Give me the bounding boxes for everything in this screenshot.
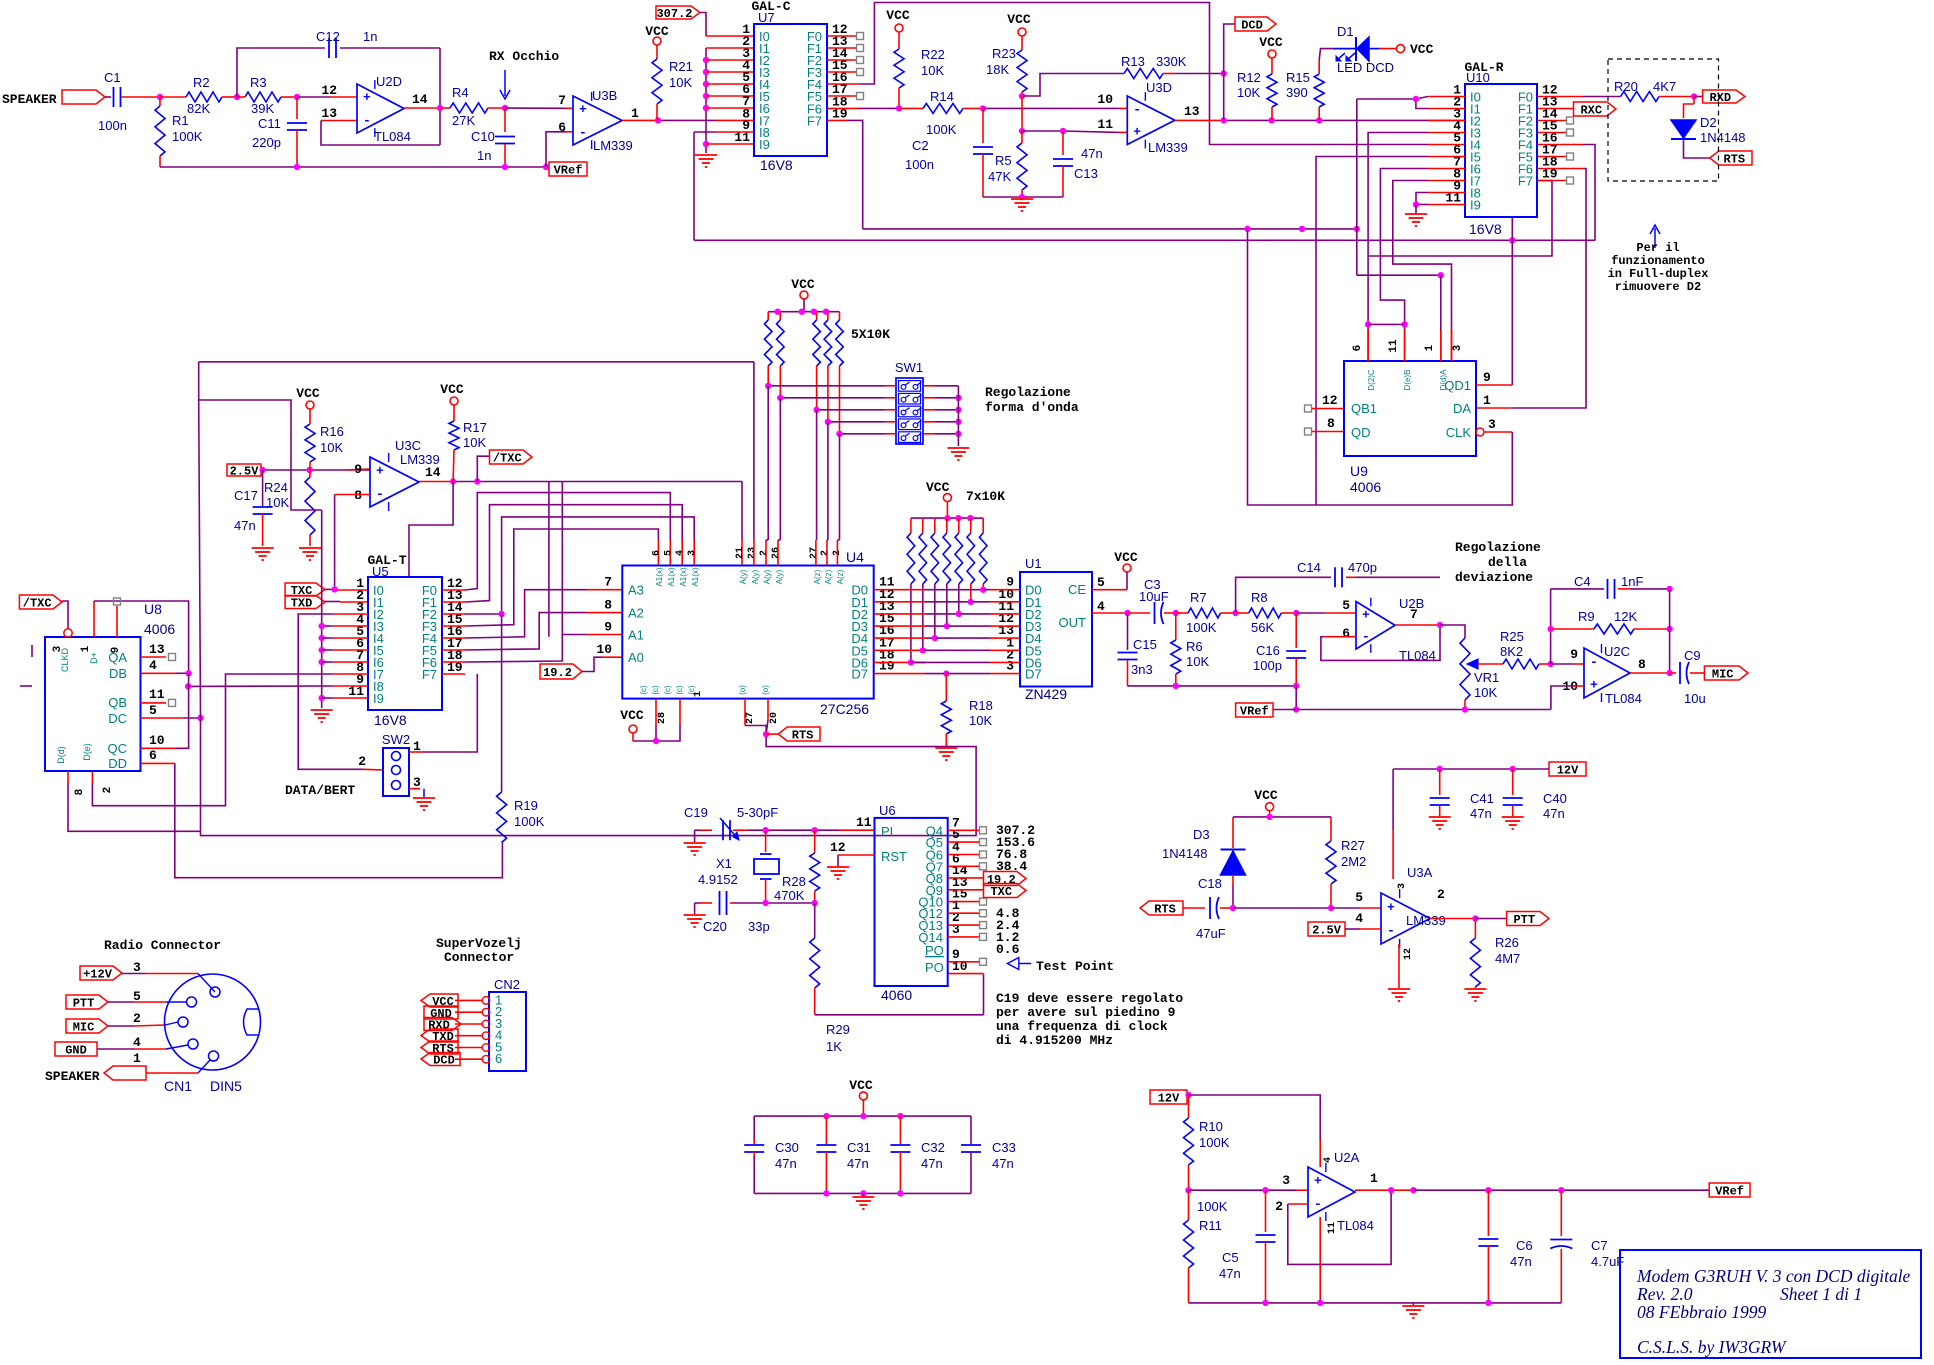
capacitor C11 220p <box>296 97 298 119</box>
svg-text:PO: PO <box>925 960 944 975</box>
wire bus1 (U7.F7 net) to U10.I0/I1 <box>863 228 1357 230</box>
12V rail <box>1393 768 1549 770</box>
svg-text:3: 3 <box>1397 883 1408 889</box>
wire R15 to D1 cathode <box>1318 60 1320 74</box>
wire U4.D7 to U1.D7 with R18 <box>874 673 925 675</box>
wire to U2A pin3 <box>1189 1189 1297 1191</box>
wire H1 bus (x200 to U4 pin) <box>199 361 754 363</box>
svg-text:R27: R27 <box>1341 838 1365 853</box>
wire bus2 (U7.I8 net) <box>694 239 1595 241</box>
wire U10.I5 from x1316 riser <box>1428 156 1465 158</box>
resistor R7 100K <box>1176 612 1188 614</box>
svg-text:4.9152: 4.9152 <box>698 872 738 887</box>
svg-text:VCC: VCC <box>1114 550 1138 565</box>
svg-text:1N4148: 1N4148 <box>1700 130 1746 145</box>
ground (C20) <box>695 902 700 904</box>
wire to U2B pin 5 <box>1296 612 1324 614</box>
junction TXC//TXC net <box>331 586 337 592</box>
resistor R9 12K <box>1551 628 1594 630</box>
svg-text:DA: DA <box>1453 401 1471 416</box>
svg-text:C19: C19 <box>684 805 708 820</box>
resistor R24 10K <box>309 470 311 477</box>
svg-text:QD1: QD1 <box>1444 378 1471 393</box>
svg-text:R13: R13 <box>1121 54 1145 69</box>
svg-text:CLKD: CLKD <box>60 648 70 673</box>
resistor R8 56K <box>1236 612 1249 614</box>
wire U5.F4 to U4.A3 <box>442 637 465 639</box>
svg-text:3: 3 <box>1488 417 1496 432</box>
junction DB <box>185 670 191 676</box>
svg-text:A1(x): A1(x) <box>679 567 688 586</box>
IC U6 4060 <box>875 818 948 986</box>
svg-text:QB: QB <box>108 695 127 710</box>
svg-text:TXD: TXD <box>291 597 313 611</box>
svg-text:7: 7 <box>558 93 566 108</box>
stray stub left (I8 row) <box>20 685 32 687</box>
svg-text:56K: 56K <box>1251 620 1274 635</box>
svg-text:14: 14 <box>412 92 428 107</box>
svg-text:8K2: 8K2 <box>1500 644 1523 659</box>
svg-text:A(z): A(z) <box>836 569 845 584</box>
junction DCD/out <box>1221 117 1227 123</box>
riser to R9/C4 <box>1550 589 1552 664</box>
svg-text:C13: C13 <box>1074 166 1098 181</box>
junction VR1/VRef rail <box>1462 706 1468 712</box>
label RTS (CN2) <box>421 1041 458 1054</box>
svg-text:2: 2 <box>102 787 114 794</box>
svg-text:-: - <box>376 487 384 502</box>
svg-text:1: 1 <box>1483 393 1491 408</box>
label 12V (VRef gen) <box>1150 1090 1187 1104</box>
junction C32 top <box>897 1113 903 1119</box>
wire SPEAKER to C1 <box>105 96 111 98</box>
svg-text:4: 4 <box>133 1035 141 1050</box>
svg-text:per avere sul piedino 9: per avere sul piedino 9 <box>996 1005 1176 1020</box>
junction X1 top <box>762 827 768 833</box>
junction SW1 row1 <box>765 383 771 389</box>
svg-text:Sheet 1 di 1: Sheet 1 di 1 <box>1780 1284 1862 1304</box>
wire U2B out to VR1 <box>1440 625 1465 638</box>
junction R1/rail <box>294 164 300 170</box>
wire U2A pin2 feedback <box>1288 1203 1308 1205</box>
resistor R14 100K <box>923 103 963 113</box>
connector RXD <box>1694 96 1703 98</box>
junction R9/fb vert <box>1666 626 1672 632</box>
svg-text:RTS: RTS <box>1724 153 1746 167</box>
resistor R3 39K <box>245 92 281 102</box>
svg-text:1n: 1n <box>477 148 491 163</box>
svg-text:6: 6 <box>149 748 157 763</box>
svg-text:2: 2 <box>1275 1199 1283 1214</box>
ground (slicer) <box>1011 198 1033 200</box>
wire RST to ground <box>838 854 875 856</box>
wire CLK net to bus1 <box>1248 229 1513 505</box>
svg-text:4060: 4060 <box>881 987 912 1003</box>
svg-text:QD: QD <box>1351 425 1371 440</box>
svg-text:2M2: 2M2 <box>1341 854 1366 869</box>
junction R10/R11/pin3 <box>1185 1187 1191 1193</box>
capacitor C2 100n <box>982 108 984 143</box>
capacitor C32 47n <box>899 1116 901 1144</box>
U8 top pin square <box>114 598 121 605</box>
resistor R17 10K <box>453 405 455 421</box>
svg-text:U8: U8 <box>144 601 162 617</box>
connector RTS (PTT input) <box>1140 901 1183 915</box>
capacitor C5 47n <box>1265 1190 1267 1232</box>
resistor R6 10K <box>1175 613 1177 640</box>
wire RTS to U4 pins <box>744 699 746 726</box>
svg-text:/TXC: /TXC <box>493 452 522 466</box>
svg-text:5: 5 <box>149 703 157 718</box>
svg-text:4M7: 4M7 <box>1495 951 1520 966</box>
svg-text:4006: 4006 <box>1350 479 1381 495</box>
connector RTS (full-duplex) <box>1710 151 1752 165</box>
svg-text:47uF: 47uF <box>1196 926 1226 941</box>
svg-text:SW1: SW1 <box>895 360 923 375</box>
svg-text:U2B: U2B <box>1399 596 1424 611</box>
svg-text:della: della <box>1488 555 1527 570</box>
svg-text:VCC: VCC <box>849 1078 873 1093</box>
svg-text:R20: R20 <box>1614 79 1638 94</box>
power VCC (R27) <box>1266 803 1274 811</box>
svg-text:D(e): D(e) <box>82 743 92 761</box>
resistor R12 10K <box>1271 58 1273 74</box>
wire U2C output <box>1630 672 1670 674</box>
svg-text:Regolazione: Regolazione <box>985 385 1071 400</box>
svg-text:220p: 220p <box>252 135 281 150</box>
svg-text:47n: 47n <box>992 1156 1014 1171</box>
wire to R27 junction <box>1233 907 1331 909</box>
resistor R20 4K7 <box>1621 92 1660 102</box>
wire U10.I3 to U9 pin6 <box>1428 132 1465 134</box>
wire R14 junction to U3D pin 10 <box>983 107 1119 109</box>
svg-text:U9: U9 <box>1350 463 1368 479</box>
op-amp U3A LM339 <box>1381 893 1430 944</box>
svg-text:forma d'onda: forma d'onda <box>985 400 1079 415</box>
junction bus1 mid <box>1299 226 1305 232</box>
wire U3D output line to U10.I2 <box>1175 119 1224 121</box>
VRef output line <box>1413 1189 1709 1191</box>
svg-text:RXC: RXC <box>1580 104 1602 118</box>
wire U2A power to rail <box>1319 1217 1321 1303</box>
capacitor C7 4.7uF <box>1560 1190 1562 1236</box>
oscillator rail2 <box>733 902 815 904</box>
wire /TXC to U8 CLK bubble <box>62 601 68 629</box>
wire U2D output to R4 <box>404 107 440 109</box>
U9 pin QD (8) unconnected <box>1305 428 1312 435</box>
svg-text:R8: R8 <box>1251 590 1268 605</box>
svg-text:0.6: 0.6 <box>996 942 1020 957</box>
svg-text:6: 6 <box>1342 626 1350 641</box>
svg-text:21: 21 <box>735 547 746 559</box>
svg-text:(c): (c) <box>663 685 672 695</box>
wire U10.F6 to U9.DA <box>1537 168 1583 170</box>
svg-text:F7: F7 <box>422 667 437 682</box>
svg-text:7x10K: 7x10K <box>966 489 1005 504</box>
svg-text:D1: D1 <box>1337 24 1354 39</box>
resistor R25 8K2 <box>1503 659 1539 669</box>
svg-text:100n: 100n <box>98 118 127 133</box>
svg-text:OUT: OUT <box>1059 615 1087 630</box>
label 12V (top right) <box>1549 762 1586 776</box>
svg-text:A(z): A(z) <box>813 569 822 584</box>
svg-text:10: 10 <box>1097 92 1113 107</box>
resistor R4 27K <box>440 107 450 109</box>
resistor R23 18K <box>1021 36 1023 50</box>
svg-text:11: 11 <box>856 815 872 830</box>
junction R20/RXD/D2 <box>1691 93 1697 99</box>
5X10K resistor bottoms <box>767 366 769 386</box>
svg-text:in Full-duplex: in Full-duplex <box>1608 267 1709 281</box>
svg-text:6: 6 <box>651 550 662 556</box>
node C junction (R3/C11/U2D+) <box>294 94 300 100</box>
wires 5X10K resistors down to U4 top pins <box>767 386 769 540</box>
junction R6/rail <box>1173 683 1179 689</box>
svg-text:PTT: PTT <box>73 997 95 1011</box>
connector RTS (to modem control) <box>766 733 778 735</box>
junction C31 top <box>823 1113 829 1119</box>
svg-text:R4: R4 <box>452 85 469 100</box>
junction x1404/y324 <box>1401 321 1407 327</box>
svg-text:I9: I9 <box>1470 198 1481 213</box>
wire DCD vertical <box>1224 24 1235 120</box>
svg-text:100K: 100K <box>926 122 957 137</box>
svg-text:C18: C18 <box>1198 876 1222 891</box>
svg-text:C32: C32 <box>921 1140 945 1155</box>
op-amp U2D TL084 <box>357 84 404 133</box>
svg-text:C.S.L.S. by IW3GRW: C.S.L.S. by IW3GRW <box>1637 1337 1787 1357</box>
svg-text:13: 13 <box>149 642 165 657</box>
svg-text:10: 10 <box>149 733 165 748</box>
junction riser/R9 <box>1547 626 1553 632</box>
svg-text:100n: 100n <box>905 157 934 172</box>
ground (C17) <box>252 547 274 549</box>
svg-text:3: 3 <box>952 922 960 937</box>
label 2.5V <box>227 464 261 476</box>
wire TXD to U5.I1 <box>325 601 340 603</box>
svg-text:12: 12 <box>1322 393 1338 408</box>
svg-text:R24: R24 <box>264 480 288 495</box>
svg-text:08 FEbbraio 1999: 08 FEbbraio 1999 <box>1637 1302 1767 1322</box>
junction U2B out/C14/fb <box>1437 622 1443 628</box>
svg-text:100K: 100K <box>1186 620 1217 635</box>
svg-text:3: 3 <box>687 550 698 556</box>
svg-text:I9: I9 <box>759 137 770 152</box>
svg-text:SuperVozelj: SuperVozelj <box>436 936 522 951</box>
svg-text:8: 8 <box>1327 416 1335 431</box>
svg-text:C10: C10 <box>471 129 495 144</box>
svg-text:47n: 47n <box>775 1156 797 1171</box>
connector 19.2 (U6 Q8) <box>948 877 984 879</box>
svg-text:R17: R17 <box>463 420 487 435</box>
svg-text:A(y): A(y) <box>763 569 772 584</box>
svg-text:RTS: RTS <box>1154 903 1176 917</box>
oscillator rail1 (PI) <box>748 829 840 831</box>
wire R13 branch <box>1022 74 1124 97</box>
VRef rail bottom left <box>160 166 549 168</box>
junction out/fb <box>1388 1187 1394 1193</box>
svg-text:una frequenza di clock: una frequenza di clock <box>996 1019 1168 1034</box>
svg-text:D(e)B: D(e)B <box>1403 370 1412 391</box>
capacitor C20 33p <box>700 902 712 904</box>
junction C13/minus-line <box>1060 128 1066 134</box>
svg-text:47n: 47n <box>1510 1254 1532 1269</box>
ground (RST) <box>827 866 849 868</box>
LED arrows <box>1337 53 1345 60</box>
svg-text:Rev. 2.0: Rev. 2.0 <box>1636 1284 1693 1304</box>
ground (R24) <box>299 547 321 549</box>
wire U5.I2 to SW2 pin2 <box>333 613 368 615</box>
wire C1 to node A (R1/R2) <box>121 96 160 98</box>
svg-text:R23: R23 <box>992 46 1016 61</box>
bottom rail (VRef gen) <box>1189 1302 1562 1304</box>
connector DCD <box>1235 17 1276 31</box>
svg-text:U3C: U3C <box>395 438 421 453</box>
wire U5.F0 to U4 <box>442 589 465 591</box>
capacitor C41 47n <box>1439 769 1441 795</box>
svg-text:100p: 100p <box>1253 658 1282 673</box>
svg-text:C17: C17 <box>234 488 258 503</box>
svg-text:1n: 1n <box>363 29 377 44</box>
svg-text:A(z): A(z) <box>824 569 833 584</box>
junction C32 bottom <box>897 1190 903 1196</box>
connector PTT <box>1507 912 1549 926</box>
power VCC (R16) <box>306 401 314 409</box>
svg-text:R26: R26 <box>1495 935 1519 950</box>
title block frame <box>1620 1250 1921 1358</box>
svg-text:funzionamento: funzionamento <box>1611 254 1705 268</box>
svg-text:R14: R14 <box>930 89 954 104</box>
junction R23/R5/minus-line <box>1019 128 1025 134</box>
svg-text:VCC: VCC <box>791 277 815 292</box>
junction R15/out <box>1316 117 1322 123</box>
op-amp U2C TL084 <box>1584 648 1630 698</box>
power VCC (R21) <box>653 37 661 45</box>
junction R14/C2 <box>980 105 986 111</box>
svg-text:47n: 47n <box>1543 806 1565 821</box>
svg-text:A2: A2 <box>628 606 644 621</box>
svg-text:R21: R21 <box>669 59 693 74</box>
wire VCC to U4 pins 28/1 <box>632 733 634 741</box>
svg-text:A1: A1 <box>628 628 644 643</box>
junction R4/C10/U3B+ <box>502 105 508 111</box>
svg-text:LM339: LM339 <box>400 452 440 467</box>
junction VCC rail <box>860 1113 866 1119</box>
svg-text:R28: R28 <box>782 874 806 889</box>
svg-text:1: 1 <box>1370 1171 1378 1186</box>
svg-text:6: 6 <box>558 120 566 135</box>
junction R22/F6/R14 <box>896 105 902 111</box>
svg-text:VCC: VCC <box>1259 35 1283 50</box>
svg-text:12: 12 <box>830 840 846 855</box>
svg-text:VRef: VRef <box>554 164 583 178</box>
power VCC (C30-C33) <box>859 1092 867 1100</box>
VRef rail to U2C <box>1296 709 1551 711</box>
wire U3C output line <box>419 481 453 483</box>
wire long verticals (output bundle) <box>548 482 550 637</box>
label GND (CN2) <box>424 1006 458 1019</box>
label DCD (CN2) <box>421 1053 460 1066</box>
svg-text:27: 27 <box>809 547 820 559</box>
junction C31 bottom <box>823 1190 829 1196</box>
svg-text:A(y): A(y) <box>775 569 784 584</box>
svg-text:R29: R29 <box>826 1022 850 1037</box>
connector PTT (radio) <box>66 995 108 1009</box>
svg-text:U2C: U2C <box>1604 644 1630 659</box>
label VCC (CN2) <box>421 994 458 1007</box>
connector +12V <box>80 966 122 980</box>
wire minus line to U3D pin 11 <box>1022 130 1063 132</box>
svg-text:4006: 4006 <box>144 621 175 637</box>
svg-text:TL084: TL084 <box>374 129 411 144</box>
junction VRef <box>1293 706 1299 712</box>
svg-text:+: + <box>1387 900 1395 915</box>
12V feed <box>1187 1094 1189 1096</box>
svg-text:6: 6 <box>1352 345 1364 352</box>
wire DD to R19 net <box>175 763 503 877</box>
junction R12/out <box>1268 117 1274 123</box>
svg-text:47n: 47n <box>921 1156 943 1171</box>
connector TXD <box>285 596 325 609</box>
svg-text:CE: CE <box>1068 582 1086 597</box>
junction R8/C16/pin5 <box>1293 610 1299 616</box>
ground (C40) <box>1502 816 1524 818</box>
svg-text:3: 3 <box>1282 1173 1290 1188</box>
svg-text:C15: C15 <box>1133 637 1157 652</box>
wire +12V to DIN pin3 <box>122 973 145 975</box>
svg-text:DATA/BERT: DATA/BERT <box>285 783 355 798</box>
wire SPEAKER to DIN pin1 <box>146 1072 198 1074</box>
svg-text:+: + <box>1362 607 1370 622</box>
svg-text:X1: X1 <box>716 856 732 871</box>
wire U5.F1 to U4 <box>442 601 465 603</box>
svg-text:10u: 10u <box>1684 691 1706 706</box>
7x10K bottom stubs <box>982 584 984 590</box>
IC U4 27C256 <box>622 566 873 699</box>
svg-text:Regolazione: Regolazione <box>1455 540 1541 555</box>
svg-text:RTS: RTS <box>792 729 814 743</box>
svg-text:Modem G3RUH V. 3 con DCD digit: Modem G3RUH V. 3 con DCD digitale <box>1636 1266 1911 1286</box>
power VCC (R22) <box>895 24 903 32</box>
svg-text:ZN429: ZN429 <box>1025 686 1067 702</box>
svg-text:GND: GND <box>65 1044 87 1058</box>
resistor R11 100K <box>1188 1190 1190 1220</box>
svg-text:SPEAKER: SPEAKER <box>2 92 57 107</box>
U9 pin QB1 (12) unconnected <box>1305 405 1312 412</box>
svg-text:DC: DC <box>108 711 127 726</box>
svg-text:U5: U5 <box>372 564 389 579</box>
svg-text:12K: 12K <box>1614 609 1637 624</box>
svg-text:1: 1 <box>631 106 639 121</box>
capacitor C4 1nF <box>1551 588 1604 590</box>
junction pin6 branch/rail <box>543 164 549 170</box>
wires SW1 rows to resistors <box>768 385 885 387</box>
junction R28 top <box>812 827 818 833</box>
svg-text:27K: 27K <box>452 113 475 128</box>
wire node C to U2D pin 12 <box>297 96 330 98</box>
wire PTT to DIN pin5 <box>108 1001 134 1003</box>
svg-text:VCC: VCC <box>926 480 950 495</box>
svg-text:TL084: TL084 <box>1337 1218 1374 1233</box>
svg-text:VCC: VCC <box>440 382 464 397</box>
wire U10.F7 riser <box>1537 180 1552 182</box>
feedback vertical to U2C out <box>1669 589 1671 673</box>
svg-text:SPEAKER: SPEAKER <box>45 1069 100 1084</box>
svg-text:deviazione: deviazione <box>1455 570 1533 585</box>
ground (SW1) <box>947 447 969 449</box>
junction 2.5V/C17 <box>259 467 265 473</box>
svg-text:C14: C14 <box>1297 560 1321 575</box>
